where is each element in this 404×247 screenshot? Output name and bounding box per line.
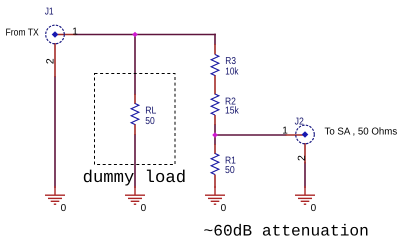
svg-text:15k: 15k <box>225 106 240 117</box>
svg-text:50: 50 <box>145 116 155 127</box>
svg-text:0: 0 <box>311 203 317 214</box>
svg-text:J2: J2 <box>295 117 305 128</box>
svg-text:10k: 10k <box>225 67 239 78</box>
svg-text:To SA , 50 Ohms: To SA , 50 Ohms <box>325 126 398 137</box>
svg-text:0: 0 <box>221 203 227 214</box>
svg-text:R3: R3 <box>225 56 236 67</box>
svg-text:J1: J1 <box>45 7 54 18</box>
svg-text:dummy load: dummy load <box>83 169 187 188</box>
svg-text:0: 0 <box>141 203 147 214</box>
svg-text:1: 1 <box>72 26 78 37</box>
svg-text:RL: RL <box>145 105 156 116</box>
svg-text:2: 2 <box>296 155 308 161</box>
svg-text:0: 0 <box>61 203 67 214</box>
svg-text:1: 1 <box>282 126 288 137</box>
svg-text:2: 2 <box>44 58 56 64</box>
svg-text:50: 50 <box>225 165 235 176</box>
svg-text:From TX: From TX <box>6 27 40 38</box>
svg-text:~60dB attenuation: ~60dB attenuation <box>204 223 369 241</box>
